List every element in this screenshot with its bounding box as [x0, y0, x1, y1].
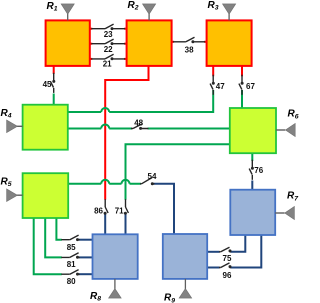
box R7 (blue)	[230, 190, 275, 235]
svg-text:96: 96	[223, 271, 232, 280]
svg-text:75: 75	[223, 254, 232, 263]
antenna R1	[61, 4, 74, 21]
wire switch 54 to R9 top (dark blue)	[154, 184, 175, 234]
wire B2 bottom to switch 86 (red)	[105, 66, 148, 200]
switch 47	[210, 75, 215, 95]
svg-text:23: 23	[104, 30, 113, 39]
svg-text:85: 85	[67, 243, 76, 252]
box R6 (green)	[230, 108, 276, 153]
box R8 (blue)	[93, 234, 138, 279]
switch 85	[61, 235, 80, 241]
svg-text:54: 54	[148, 172, 157, 181]
antenna R3	[223, 4, 236, 21]
wire R5 bottom x56 to switch 85 (green)	[56, 218, 61, 240]
switch 54	[140, 178, 155, 186]
svg-text:22: 22	[104, 45, 113, 54]
wire switch 96 to R7 bottom (dark blue)	[231, 235, 262, 268]
wire R5 bottom x34 to switch 80 (green)	[34, 218, 62, 274]
wire R9 right to switch 75 (dark blue)	[207, 251, 220, 253]
wire switch 67 to R6 top (green)	[241, 90, 243, 108]
svg-text:21: 21	[103, 59, 112, 68]
wire R4 right to switch 48 (green)	[68, 128, 132, 130]
antenna R7	[275, 206, 294, 219]
wire switch 71 to R8 top (dark blue)	[125, 213, 127, 234]
antenna R2	[143, 4, 156, 21]
wire R9 right to switch 96 (dark blue)	[207, 267, 220, 269]
switch 45	[51, 73, 56, 93]
switch 67	[239, 75, 244, 95]
wire switch 81 to R8 left (dark blue)	[79, 256, 93, 258]
antenna R8	[109, 279, 122, 298]
svg-text:86: 86	[94, 206, 103, 215]
box R9 (blue)	[163, 234, 207, 279]
hop: y128.5 line over red vertical	[101, 125, 109, 129]
box B2 (node R2, orange)	[127, 20, 172, 66]
antenna R6	[276, 123, 295, 136]
hop: y183.8 line over green vertical	[122, 180, 130, 184]
switch link 22 between boxes	[90, 39, 127, 45]
svg-text:81: 81	[67, 260, 76, 269]
switch 80	[61, 270, 80, 276]
wire switch 85 to R8 left (dark blue)	[79, 239, 93, 241]
hop: y183.8 line over red vertical	[101, 180, 109, 184]
svg-text:48: 48	[134, 118, 143, 127]
switch link 23 between boxes	[90, 24, 127, 30]
antenna R4	[7, 120, 23, 133]
svg-text:45: 45	[43, 80, 52, 89]
hop: y112 line over red vertical	[101, 108, 109, 112]
wire switch 76 to R7 top (dark blue)	[251, 181, 253, 190]
svg-text:76: 76	[254, 166, 263, 175]
switch 71	[124, 199, 128, 215]
wire R6 bottom to switch 76 (green)	[251, 153, 253, 161]
box R4 (green)	[23, 105, 68, 150]
switch link 38 between boxes	[172, 37, 207, 43]
box B3 (node R3, orange)	[207, 20, 252, 66]
wire switch 47 down to node y112 toward R4 (green)	[68, 90, 213, 112]
svg-text:47: 47	[216, 82, 225, 91]
svg-text:38: 38	[185, 46, 194, 55]
box R5 (green)	[23, 173, 69, 218]
wire B3 bottom to switch 47 (red)	[212, 66, 214, 76]
svg-text:67: 67	[246, 82, 255, 91]
switch 76	[249, 160, 254, 180]
switch link 21 between boxes	[90, 54, 127, 60]
switch 86	[104, 199, 109, 215]
box B1 (node R1, orange)	[46, 20, 90, 66]
switch 96	[219, 263, 232, 268]
wire B3 bottom to switch 67 (red)	[241, 66, 243, 76]
wire R5 right to switch 54 (green)	[68, 183, 141, 185]
wire switch 86 to R8 top (dark blue)	[104, 213, 106, 234]
wire B1 bottom to switch 45 (red)	[53, 66, 55, 74]
wire switch 80 to R8 left (dark blue)	[79, 273, 93, 275]
antenna R9	[179, 279, 192, 298]
svg-text:71: 71	[115, 206, 124, 215]
switch 75	[219, 247, 232, 252]
switch 81	[61, 253, 80, 259]
svg-text:80: 80	[67, 277, 76, 286]
antenna R5	[7, 189, 23, 202]
wire switch 48 to R6 left (green)	[148, 128, 230, 130]
wire R6 left y144 to switch 71 (green)	[126, 144, 230, 200]
wire R5 bottom x45 to switch 81 (green)	[45, 218, 62, 257]
wire switch 75 to R7 bottom (dark blue)	[231, 235, 246, 252]
wire switch 45 to R4 top (green)	[53, 94, 55, 105]
switch 48	[131, 124, 149, 130]
